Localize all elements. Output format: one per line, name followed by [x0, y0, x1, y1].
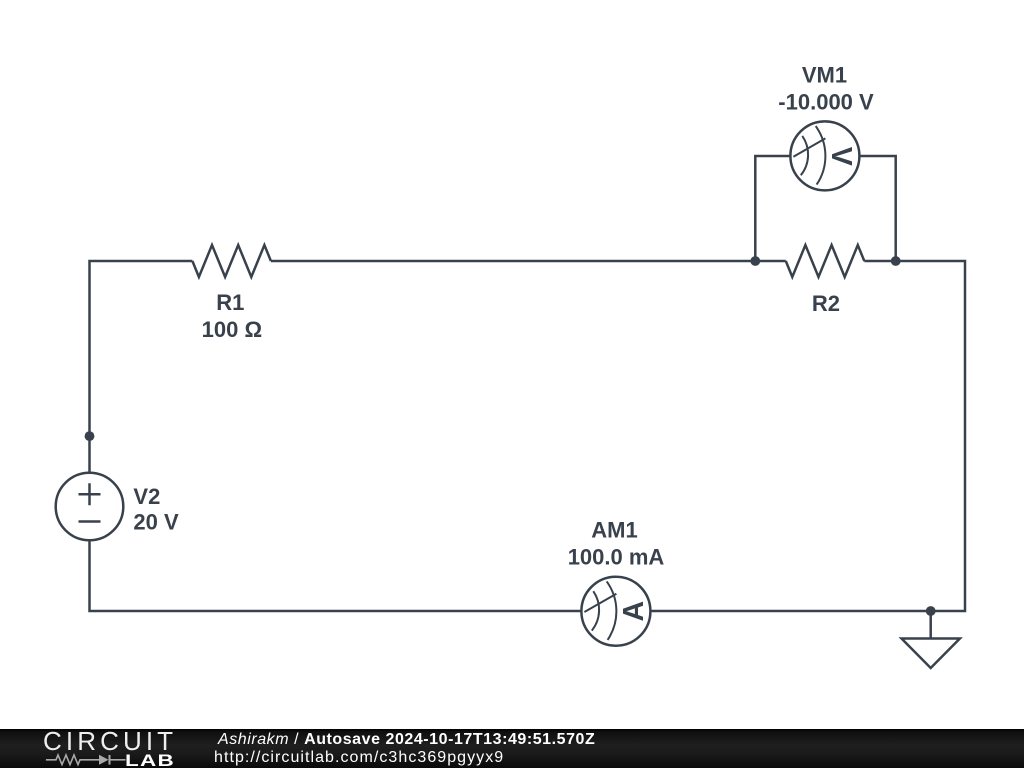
- resistor R1: [192, 245, 271, 277]
- node dot: R2 right junction with VM1: [891, 256, 901, 266]
- svg-text:R1: R1: [216, 290, 244, 315]
- svg-text:V: V: [825, 147, 857, 166]
- CircuitLab logo resistor-diode glyph: [44, 751, 134, 768]
- wire: VM1 branch right riser: [858, 156, 896, 261]
- svg-text:V2: V2: [133, 484, 160, 509]
- voltmeter VM1 body: [790, 121, 859, 190]
- svg-text:100 Ω: 100 Ω: [202, 317, 262, 342]
- svg-text:20 V: 20 V: [133, 509, 179, 534]
- wire: top middle segment between R1 and R2: [271, 260, 786, 263]
- voltage source V2 minus sign: [79, 520, 101, 523]
- svg-text:A: A: [618, 601, 650, 622]
- logo wire after diode: [111, 759, 126, 761]
- voltmeter VM1 gauge outer arc: [816, 126, 826, 185]
- ground symbol: [902, 611, 960, 668]
- CircuitLab logo wordmark CIRCUIT: [43, 726, 177, 757]
- node dot: R1/R2 left junction with VM1: [750, 256, 760, 266]
- voltmeter VM1 gauge needle: [793, 138, 825, 156]
- ammeter AM1 gauge inner arc: [592, 591, 599, 630]
- svg-text:R2: R2: [812, 291, 840, 316]
- wire: top-right, right side and bottom rail: [90, 261, 966, 611]
- svg-text:100.0 mA: 100.0 mA: [568, 544, 665, 569]
- wire: VM1 branch left riser: [755, 156, 792, 261]
- ammeter AM1 body: [581, 577, 650, 646]
- wire: left vertical from top-left corner down to V2 top: [90, 261, 193, 473]
- ammeter AM1 gauge outer arc: [607, 581, 617, 640]
- ammeter AM1 gauge needle: [584, 594, 616, 612]
- CircuitLab logo wordmark LAB: [125, 751, 175, 771]
- footer line 2: url: [214, 749, 504, 767]
- voltage source V2 body: [56, 473, 124, 541]
- voltage source V2 plus sign: [79, 483, 101, 505]
- footer line 1: author / autosave title: [218, 731, 595, 749]
- logo diode cathode bar: [109, 755, 111, 765]
- resistor R2: [786, 245, 865, 277]
- svg-text:AM1: AM1: [591, 517, 637, 542]
- footer black bar: [0, 729, 1024, 768]
- svg-text:-10.000 V: -10.000 V: [778, 89, 874, 114]
- logo diode: [99, 755, 109, 765]
- node dot: left rail above V2: [85, 431, 95, 441]
- node dot: ground junction on bottom rail: [926, 606, 936, 616]
- logo wire with resistor zigzag: [46, 755, 99, 765]
- voltmeter VM1 gauge inner arc: [801, 136, 808, 175]
- svg-text:VM1: VM1: [802, 62, 847, 87]
